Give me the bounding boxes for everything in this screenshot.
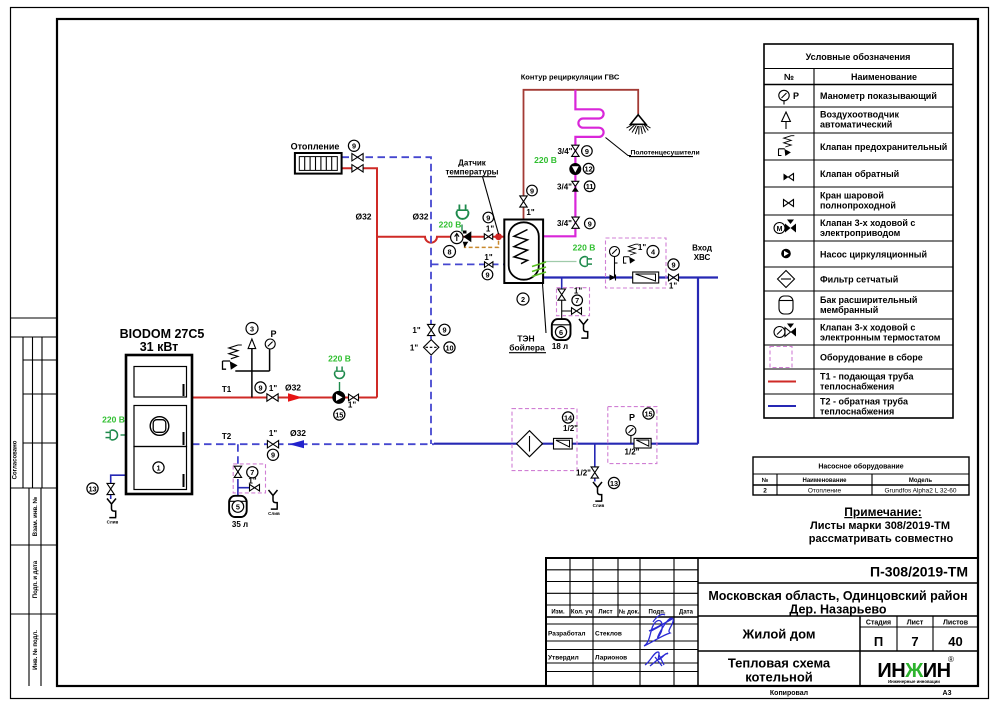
gauge box15: [626, 426, 636, 436]
equipment box 15 gauge unit: [608, 407, 657, 464]
plug 220V boiler: [106, 430, 118, 440]
node 4: [647, 246, 659, 258]
svg-text:Бак расширительный: Бак расширительный: [820, 295, 917, 305]
svg-text:220 В: 220 В: [328, 354, 351, 364]
node 9 towel bottom: [585, 218, 596, 229]
legend symbol: кран шаровой: [784, 200, 794, 207]
svg-text:2: 2: [763, 488, 767, 495]
svg-text:полнопроходной: полнопроходной: [820, 201, 896, 211]
node 9 coil return: [482, 269, 493, 280]
svg-text:П: П: [874, 634, 883, 649]
svg-text:Дата: Дата: [679, 610, 694, 616]
svg-text:220 В: 220 В: [573, 243, 596, 253]
svg-text:Насосное оборудование: Насосное оборудование: [818, 463, 903, 471]
valve cold inlet: [669, 274, 679, 281]
legend symbol: клапан предохранительный: [779, 136, 795, 156]
node 14: [562, 412, 573, 423]
svg-text:Согласовано: Согласовано: [13, 440, 19, 479]
legend symbol: манометр: [779, 90, 799, 104]
plug 220V pump15: [335, 367, 345, 379]
safety valve box4: [624, 244, 639, 263]
svg-text:№ док.: № док.: [619, 609, 640, 616]
drain funnel boiler: [107, 499, 119, 525]
expansion tank 5 (35l): [229, 496, 247, 517]
gauge box4: [610, 247, 620, 257]
node 9 cold inlet: [668, 259, 679, 270]
svg-text:Клапан предохранительный: Клапан предохранительный: [820, 142, 947, 152]
expansion tank 6 (18l): [552, 319, 571, 340]
svg-text:Контур рециркуляции ГВС: Контур рециркуляции ГВС: [521, 73, 620, 82]
valve coil inlet: [484, 234, 492, 240]
logo ИНЖИН: [877, 655, 954, 684]
node 13 bottom drain: [608, 477, 619, 488]
svg-text:P: P: [793, 91, 799, 101]
wire expansion tank connection: [238, 479, 260, 496]
legend symbol: T2 line: [768, 405, 796, 407]
svg-text:BIODOM 27C5: BIODOM 27C5: [120, 327, 205, 341]
svg-text:1": 1": [269, 429, 277, 438]
svg-text:7: 7: [575, 296, 579, 305]
svg-text:T1: T1: [222, 385, 232, 394]
svg-text:Ø32: Ø32: [290, 428, 306, 438]
svg-text:9: 9: [585, 147, 589, 156]
water meter box14: [554, 438, 573, 449]
pump 15 circulation: [332, 391, 345, 404]
valve radiator supply: [352, 154, 363, 161]
valve 3/4 towel bottom: [572, 217, 579, 228]
svg-text:1": 1": [484, 253, 492, 262]
wire cold water riser: [697, 278, 699, 444]
svg-text:1": 1": [269, 384, 277, 393]
svg-text:1/2": 1/2": [576, 469, 591, 478]
svg-text:1": 1": [526, 208, 534, 217]
svg-text:Воздухоотводчик: Воздухоотводчик: [820, 110, 900, 120]
svg-text:Разработал: Разработал: [548, 630, 586, 638]
pump equipment table: [753, 457, 969, 495]
node 8: [444, 246, 456, 258]
svg-text:Жилой дом: Жилой дом: [741, 627, 815, 642]
svg-text:Grundfos Alpha2 L 32-60: Grundfos Alpha2 L 32-60: [884, 488, 956, 495]
valve after pump15: [349, 394, 359, 401]
svg-text:Стеклов: Стеклов: [595, 631, 622, 638]
air vent: [248, 339, 256, 349]
wire T1 branch to tank coil with hop over dashed line: [377, 237, 496, 243]
svg-text:3: 3: [250, 324, 254, 333]
svg-text:15: 15: [335, 410, 343, 419]
pressure gauge P boiler: [265, 339, 275, 349]
wire bottom drain stub: [594, 444, 596, 482]
flow arrow T2: [289, 440, 304, 448]
equipment box 14 filter unit: [512, 409, 577, 471]
svg-text:Полотенцесушители: Полотенцесушители: [631, 149, 700, 156]
svg-text:Московская область, Одинцовски: Московская область, Одинцовский район: [708, 589, 967, 603]
radiator отопление: [295, 153, 342, 174]
svg-text:Ø32: Ø32: [285, 383, 301, 393]
water meter box15: [634, 438, 651, 448]
svg-text:Наименование: Наименование: [802, 478, 847, 484]
legend symbol: насос: [781, 249, 791, 259]
svg-text:№: №: [762, 477, 769, 484]
svg-text:1": 1": [486, 225, 494, 234]
svg-text:9: 9: [485, 270, 489, 279]
svg-text:14: 14: [564, 413, 573, 422]
wire 220V stem to boiler plug: [121, 434, 127, 436]
svg-text:9: 9: [258, 383, 262, 392]
svg-text:1": 1": [574, 287, 582, 296]
svg-text:8: 8: [447, 247, 451, 256]
node 10: [444, 342, 455, 353]
check valve 11: [572, 181, 579, 192]
svg-text:Условные обозначения: Условные обозначения: [806, 52, 911, 62]
svg-text:7: 7: [911, 634, 918, 649]
wire T1 riser to radiator: [342, 168, 377, 397]
svg-text:Слив: Слив: [107, 520, 119, 525]
svg-text:40: 40: [948, 634, 962, 649]
wire 18l expansion branch: [561, 278, 563, 291]
valve coil return: [485, 262, 493, 268]
svg-text:Тепловая схема: Тепловая схема: [728, 656, 831, 671]
legend symbol: клапан 3-х ходовой с электронным термостатом: [774, 324, 796, 338]
svg-text:31 кВт: 31 кВт: [140, 340, 179, 354]
node 13 boiler drain: [87, 483, 98, 494]
drain funnel bottom: [593, 482, 605, 508]
svg-text:ХВС: ХВС: [694, 253, 711, 262]
svg-text:P: P: [629, 413, 635, 423]
safety group: stem and bar: [235, 349, 269, 398]
svg-text:Кран шаровой: Кран шаровой: [820, 191, 884, 201]
svg-text:3/4": 3/4": [557, 219, 572, 228]
legend symbol: T1 line: [768, 381, 796, 383]
wire 18l expansion lower links: [562, 299, 571, 319]
indirect water heater tank 2: [504, 220, 543, 284]
svg-text:M: M: [777, 226, 783, 233]
wire towel-rail serpentine (magenta): [544, 90, 604, 237]
svg-text:2: 2: [521, 295, 525, 304]
shower head: [627, 115, 651, 135]
svg-text:Т2 - обратная труба: Т2 - обратная труба: [820, 397, 909, 407]
svg-text:220 В: 220 В: [102, 415, 125, 425]
pump 12 recirculation: [569, 163, 581, 175]
svg-text:10: 10: [445, 343, 453, 352]
svg-text:Клапан 3-х ходовой с: Клапан 3-х ходовой с: [820, 323, 915, 333]
node 7 box35: [247, 467, 258, 478]
drain funnel 18l: [579, 319, 588, 338]
svg-text:Слив: Слив: [593, 503, 605, 508]
svg-text:1/2": 1/2": [563, 424, 578, 433]
valve expansion 35l: [234, 466, 241, 477]
node 9 valve T2: [267, 449, 278, 460]
wire DHW riser from tank top: [524, 90, 639, 220]
title block: [546, 558, 978, 686]
equipment box 18l: [557, 288, 590, 316]
equipment box 4 cold water unit: [606, 238, 667, 288]
valve radiator return: [352, 165, 363, 172]
svg-text:3/4": 3/4": [558, 147, 573, 156]
valve expansion 18l: [558, 289, 565, 300]
wire sensor capillary (dashed orange): [465, 241, 499, 248]
svg-text:Ø32: Ø32: [412, 212, 428, 222]
svg-text:автоматический: автоматический: [820, 120, 892, 130]
wire cold water inlet line: [544, 276, 719, 278]
svg-text:№: №: [784, 72, 794, 82]
label датчик температуры with callout: [446, 159, 499, 235]
svg-text:Ларионов: Ларионов: [595, 655, 627, 662]
node 5: [232, 501, 244, 513]
svg-text:мембранный: мембранный: [820, 305, 878, 315]
svg-text:1": 1": [348, 401, 356, 410]
svg-text:Кол. уч: Кол. уч: [571, 610, 593, 616]
node 11: [584, 181, 595, 192]
svg-text:Инженерные инновации: Инженерные инновации: [888, 679, 940, 684]
node 9 towel top: [582, 146, 593, 157]
svg-text:11: 11: [586, 182, 594, 191]
label полотенцесушители with callout: [606, 138, 700, 157]
node 2 tank: [517, 293, 529, 305]
svg-text:Лист: Лист: [907, 620, 924, 627]
svg-text:Фильтр сетчатый: Фильтр сетчатый: [820, 275, 898, 285]
valve dashed riser: [428, 324, 435, 335]
svg-text:12: 12: [585, 165, 593, 174]
heating element marks (green): [532, 262, 546, 277]
svg-text:13: 13: [88, 484, 96, 493]
node temperature sensor junction: [495, 233, 502, 240]
node 9 coil inlet: [483, 212, 494, 223]
svg-text:Вход: Вход: [692, 244, 712, 253]
check valve box4: [610, 275, 616, 281]
wire boiler drain: [111, 475, 126, 499]
svg-text:1": 1": [412, 326, 420, 335]
valve drain 35l: [250, 484, 260, 491]
label ТЭН бойлера with callout: [509, 284, 546, 353]
svg-text:Ø32: Ø32: [355, 212, 371, 222]
node 6: [555, 326, 566, 337]
svg-text:Инв. № подл.: Инв. № подл.: [32, 630, 39, 670]
plug 220V heater element: [580, 257, 592, 267]
wire 220V stem to pump 15: [339, 382, 341, 392]
svg-text:Листов: Листов: [943, 620, 969, 627]
svg-text:9: 9: [442, 326, 446, 335]
svg-text:Копировал: Копировал: [770, 690, 808, 697]
svg-text:Лист: Лист: [598, 610, 612, 616]
svg-text:Датчик: Датчик: [458, 159, 487, 168]
svg-text:Модель: Модель: [909, 478, 933, 484]
wire coil return branch (dashed): [431, 263, 504, 265]
svg-text:1": 1": [410, 344, 418, 353]
svg-text:1": 1": [669, 282, 677, 291]
svg-text:1/2": 1/2": [625, 448, 640, 457]
plug 220V 3-way valve: [457, 205, 469, 219]
node 9 tank top: [527, 185, 538, 196]
wire 220V stem to 3-way valve: [461, 225, 463, 232]
note примечание: [809, 505, 954, 545]
valve T2: [267, 441, 278, 448]
svg-text:6: 6: [559, 328, 563, 337]
svg-text:Манометр показывающий: Манометр показывающий: [820, 91, 937, 101]
svg-text:электронным термостатом: электронным термостатом: [820, 333, 941, 343]
boiler BIODOM body: [126, 355, 192, 494]
svg-text:котельной: котельной: [745, 670, 813, 685]
valve drain 18l: [572, 308, 582, 315]
svg-text:P: P: [270, 329, 276, 339]
label boiler name: [120, 327, 205, 354]
svg-text:5: 5: [236, 502, 240, 511]
valve T1: [267, 394, 278, 401]
svg-text:220 В: 220 В: [439, 220, 462, 230]
svg-text:Взам. инв. №: Взам. инв. №: [32, 497, 39, 537]
wire coil inlet stub: [499, 236, 505, 238]
legend table: [764, 44, 953, 418]
svg-text:бойлера: бойлера: [509, 343, 545, 353]
legend symbol: оборудование в сборе: [770, 347, 792, 368]
legend symbol: клапан обратный: [784, 174, 794, 181]
svg-text:13: 13: [610, 479, 618, 488]
legend symbol: воздухоотводчик: [782, 112, 791, 129]
flow arrow T1: [288, 393, 303, 401]
node 3: [246, 323, 258, 335]
svg-text:Насос циркуляционный: Насос циркуляционный: [820, 250, 927, 260]
svg-text:теплоснабжения: теплоснабжения: [820, 382, 894, 392]
svg-text:Примечание:: Примечание:: [844, 505, 922, 519]
svg-text:18 л: 18 л: [552, 342, 568, 351]
svg-text:рассматривать совместно: рассматривать совместно: [809, 533, 954, 545]
svg-text:15: 15: [644, 409, 652, 418]
svg-text:®: ®: [948, 655, 954, 664]
node 9 valve T1: [255, 382, 266, 393]
valve 3/4 towel top: [572, 145, 579, 156]
svg-text:Оборудование в сборе: Оборудование в сборе: [820, 353, 923, 363]
svg-text:Изм.: Изм.: [551, 610, 565, 616]
signature 1: [644, 614, 673, 646]
svg-text:П-308/2019-ТМ: П-308/2019-ТМ: [870, 564, 968, 580]
strainer filter box14: [517, 431, 543, 457]
strainer filter 10: [424, 340, 439, 355]
svg-text:220 В: 220 В: [534, 155, 557, 165]
wire T2 expansion branch (dashed): [237, 444, 239, 479]
wire heater element lead (pale green): [544, 261, 577, 263]
svg-text:Подп. и дата: Подп. и дата: [33, 560, 39, 598]
svg-text:Клапан обратный: Клапан обратный: [820, 169, 899, 179]
legend symbol: клапан 3-х ходовой с электроприводом: [774, 220, 796, 234]
svg-text:Стадия: Стадия: [866, 620, 891, 627]
svg-text:9: 9: [486, 213, 490, 222]
wire T2 return to boiler (dashed): [192, 443, 434, 445]
legend symbol: фильтр сетчатый: [778, 271, 795, 288]
svg-text:Отопление: Отопление: [291, 142, 340, 152]
node 15 gauge unit: [643, 408, 654, 419]
svg-text:1: 1: [156, 463, 160, 472]
svg-text:9: 9: [671, 260, 675, 269]
valve boiler drain: [107, 483, 114, 494]
svg-text:Утвердил: Утвердил: [548, 655, 579, 662]
svg-text:1": 1": [248, 477, 256, 486]
drain funnel 35l: [268, 490, 280, 516]
valve bottom drain: [591, 467, 598, 478]
legend symbol: бак расширительный: [779, 296, 793, 314]
node 9 radiator valves: [348, 140, 359, 151]
svg-text:Дер. Назарьево: Дер. Назарьево: [789, 603, 887, 617]
svg-text:9: 9: [530, 186, 534, 195]
safety valve 3: [223, 345, 242, 370]
svg-text:Слив: Слив: [268, 511, 280, 516]
svg-text:температуры: температуры: [446, 168, 499, 177]
svg-text:А3: А3: [943, 690, 952, 697]
svg-text:Т1 - подающая труба: Т1 - подающая труба: [820, 372, 915, 382]
water meter box4: [633, 272, 659, 283]
node 9 dashed riser: [439, 324, 450, 335]
label вход ХВС: [692, 244, 712, 263]
svg-text:теплоснабжения: теплоснабжения: [820, 407, 894, 417]
3-way valve 8 with actuator: [451, 231, 472, 248]
node 12: [583, 163, 594, 174]
svg-text:9: 9: [271, 451, 275, 460]
svg-text:1": 1": [638, 243, 646, 252]
svg-text:T2: T2: [222, 432, 232, 441]
svg-text:3/4": 3/4": [557, 183, 572, 192]
wire cold water manifold: [434, 443, 698, 445]
valve tank top riser: [520, 196, 527, 207]
equipment box 35l: [233, 464, 265, 493]
svg-text:Наименование: Наименование: [851, 72, 917, 82]
svg-text:Листы марки 308/2019-ТМ: Листы марки 308/2019-ТМ: [810, 520, 950, 532]
svg-text:9: 9: [588, 219, 592, 228]
node 7 box18: [572, 295, 583, 306]
node 15 pump: [334, 409, 345, 420]
svg-text:электроприводом: электроприводом: [820, 228, 901, 238]
svg-text:35 л: 35 л: [232, 520, 248, 529]
svg-text:Клапан 3-х ходовой с: Клапан 3-х ходовой с: [820, 218, 915, 228]
wire radiator return (dashed) to T2 drop: [342, 157, 432, 444]
signature 2: [645, 652, 668, 666]
node 1 boiler: [153, 462, 164, 473]
svg-text:9: 9: [352, 142, 356, 151]
svg-text:Отопление: Отопление: [808, 488, 842, 495]
wire T1 supply from boiler: [192, 397, 377, 399]
